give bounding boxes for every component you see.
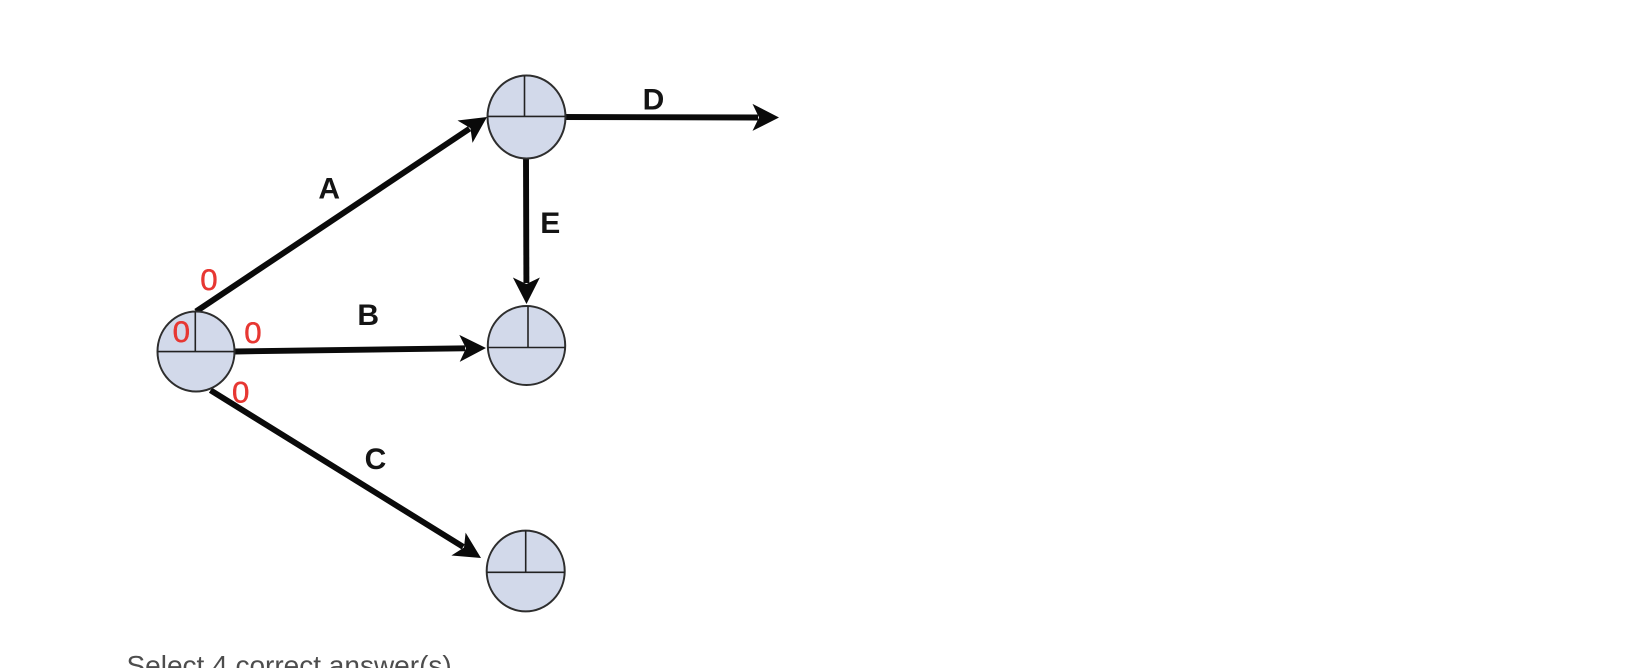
arrow E (activity E, from top node to middle node) [513,158,540,304]
svg-text:A: A [318,173,340,206]
svg-text:Select 4 correct answer(s): Select 4 correct answer(s) [127,650,452,668]
arrow A (activity A, from start node to top node) [196,117,487,312]
node middle (event circle with compartments) [488,306,565,385]
svg-text:0: 0 [173,316,190,349]
svg-text:0: 0 [232,376,249,409]
node bottom (event circle with compartments) [487,531,565,612]
node start (event circle with EF/LF compartments) [158,312,235,392]
svg-text:B: B [357,299,379,332]
arrow B (activity B, from start node to middle node) [235,335,486,362]
svg-text:D: D [643,83,665,116]
svg-text:E: E [540,207,560,240]
svg-text:C: C [365,443,387,476]
svg-text:0: 0 [200,264,217,297]
svg-text:0: 0 [244,317,261,350]
arrow C (activity C, from start node to bottom node) [211,390,482,558]
node top (event circle with compartments) [488,76,566,159]
arrow D (activity D, out of top node) [561,104,779,131]
